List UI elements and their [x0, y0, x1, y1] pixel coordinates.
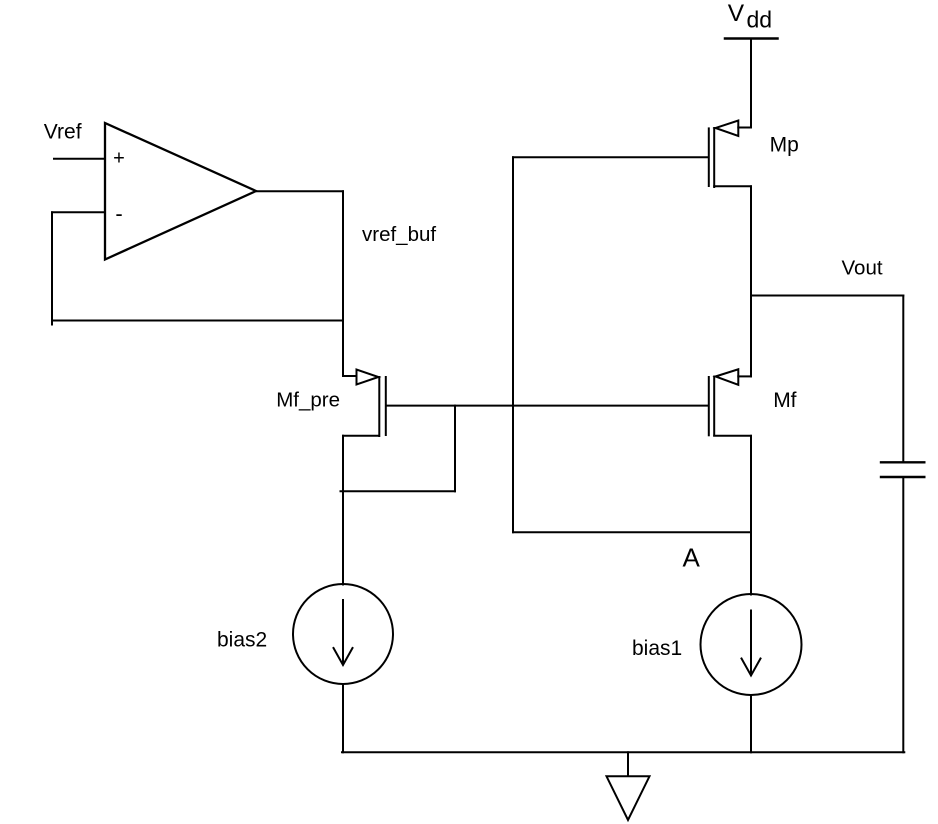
wire node A rail — [513, 531, 751, 533]
wire Vout down to capacitor — [902, 296, 904, 463]
transistor Mf — [709, 369, 751, 436]
wire Mp gate horizontal — [513, 156, 708, 158]
wire Mp gate to node A tall vertical — [512, 157, 514, 532]
wire op-amp output horizontal — [256, 190, 343, 192]
op-amp U1 — [105, 123, 256, 260]
wire bias1 to ground rail — [750, 695, 752, 752]
power Vdd bar — [725, 37, 778, 40]
svg-text:dd: dd — [747, 6, 773, 32]
wire Vdd to Mp source — [750, 39, 752, 128]
svg-text:bias2: bias2 — [217, 629, 267, 652]
svg-text:A: A — [683, 542, 701, 572]
wire feedback bottom horizontal — [52, 320, 343, 322]
capacitor C1 — [881, 462, 924, 477]
svg-text:Mf: Mf — [773, 389, 796, 412]
transistor Mf_pre — [343, 370, 386, 437]
svg-text:Mp: Mp — [770, 134, 799, 157]
svg-text:Vout: Vout — [842, 257, 883, 280]
current source bias1 — [701, 594, 802, 695]
wire op-amp - input — [52, 211, 105, 213]
ground — [607, 752, 650, 820]
wire Mf_pre gate diode-connect vertical — [454, 406, 456, 492]
svg-text:V: V — [728, 0, 745, 27]
wire Vout horizontal — [751, 295, 903, 297]
node Vdd label — [728, 0, 772, 32]
wire node A down to bias1 — [750, 532, 752, 594]
wire Mf_pre gate diode-connect horizontal — [341, 490, 456, 492]
svg-text:vref_buf: vref_buf — [362, 223, 436, 246]
svg-text:Mf_pre: Mf_pre — [276, 389, 340, 412]
svg-text:Vref: Vref — [44, 121, 82, 144]
wire Mp drain vertical to Vout — [750, 186, 752, 295]
wire ground rail — [342, 751, 904, 753]
svg-text:bias1: bias1 — [632, 637, 682, 660]
svg-text:+: + — [113, 148, 125, 170]
wire vref_buf vertical down to Mf_pre — [342, 191, 344, 376]
wire bias2 to ground rail — [342, 684, 344, 752]
wire capacitor bottom to ground rail — [902, 477, 904, 752]
transistor Mp — [709, 121, 751, 188]
wire Vout to Mf source vertical — [750, 296, 752, 377]
wire Vref to op-amp + input — [54, 158, 105, 160]
svg-text:-: - — [115, 201, 122, 226]
wire Mf_pre source vertical down to bias2 — [342, 436, 344, 585]
wire Mf drain vertical to node A — [750, 436, 752, 533]
wire feedback left vertical — [51, 212, 53, 324]
wire gate net Mf_pre to Mf — [386, 405, 708, 407]
current source bias2 — [293, 584, 393, 684]
